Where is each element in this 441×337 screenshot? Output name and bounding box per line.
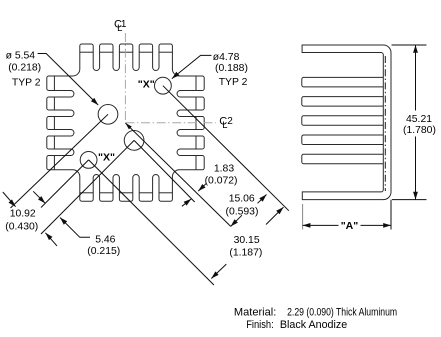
svg-text:15.06: 15.06	[229, 193, 255, 204]
svg-text:30.15: 30.15	[234, 235, 260, 246]
svg-text:Finish:: Finish:	[246, 319, 274, 331]
svg-text:(0.188): (0.188)	[215, 63, 248, 74]
svg-text:"X": "X"	[98, 152, 115, 164]
svg-text:(1.780): (1.780)	[403, 125, 436, 136]
svg-text:(0.430): (0.430)	[5, 222, 38, 233]
svg-text:Material:: Material:	[234, 307, 276, 319]
svg-text:2.29 (0.090) Thick Aluminum: 2.29 (0.090) Thick Aluminum	[287, 307, 397, 319]
svg-text:TYP 2: TYP 2	[219, 77, 248, 88]
svg-text:ø 5.54: ø 5.54	[6, 50, 36, 61]
svg-text:1.83: 1.83	[214, 164, 234, 175]
svg-text:(1.187): (1.187)	[229, 248, 262, 259]
svg-text:1: 1	[121, 19, 127, 30]
svg-text:"A": "A"	[341, 220, 359, 232]
svg-text:5.46: 5.46	[95, 235, 115, 246]
svg-text:(0.215): (0.215)	[87, 246, 120, 257]
svg-text:(0.072): (0.072)	[205, 175, 238, 186]
svg-text:(0.593): (0.593)	[226, 207, 259, 218]
svg-text:10.92: 10.92	[10, 208, 36, 219]
svg-text:45.21: 45.21	[406, 114, 432, 125]
svg-text:2: 2	[227, 116, 233, 127]
svg-text:ø4.78: ø4.78	[213, 52, 240, 63]
svg-text:TYP 2: TYP 2	[12, 78, 41, 89]
svg-text:(0.218): (0.218)	[8, 62, 41, 73]
svg-text:Black Anodize: Black Anodize	[280, 319, 347, 331]
svg-text:"X": "X"	[138, 79, 155, 91]
